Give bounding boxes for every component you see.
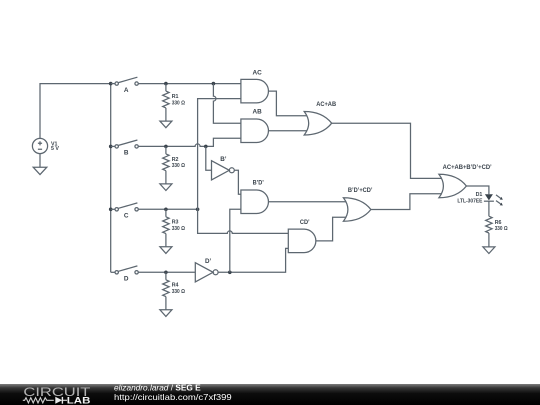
wire bus to switch B [111, 145, 115, 147]
wire C to AND U4 (hop over D' wire) [198, 209, 289, 233]
and-gate U2 (AB) [241, 108, 269, 142]
svg-text:330 Ω: 330 Ω [172, 289, 186, 295]
svg-text:B’D’: B’D’ [253, 179, 264, 186]
svg-text:elizandro.larad / SEG E: elizandro.larad / SEG E [114, 382, 201, 392]
wire B'D' output to OR U8 [269, 201, 347, 203]
wire B to inverter U3 [206, 146, 212, 170]
wire AB output to OR U7 [269, 130, 308, 132]
and-gate U4 (CD') [288, 219, 316, 253]
resistor R1 330 [163, 84, 186, 122]
svg-text:R3: R3 [172, 220, 179, 226]
and-gate U1 (AC) [241, 70, 269, 103]
wire bus to switch D [111, 271, 115, 273]
ground below R2 [160, 184, 172, 191]
svg-text:LTL-307EE: LTL-307EE [457, 198, 482, 204]
svg-text:B’D’+CD’: B’D’+CD’ [348, 187, 373, 194]
node bus-A [109, 82, 113, 86]
wire A to AND U2 (hop over C wire) [213, 84, 241, 124]
node A-resistor junction [164, 82, 168, 86]
svg-text:D’: D’ [205, 258, 211, 265]
wire B' output to AND U5 [234, 170, 241, 194]
resistor R3 330 [163, 209, 186, 247]
svg-text:330 Ω: 330 Ω [495, 226, 509, 232]
wire C up to AND U1 [198, 99, 241, 210]
node B-resistor junction [164, 145, 168, 149]
resistor R4 330 [163, 272, 186, 310]
or-gate U8 (B'D'+CD') [343, 187, 372, 221]
node D-resistor junction [164, 271, 168, 275]
svg-text:B’: B’ [220, 156, 226, 163]
svg-text:330 Ω: 330 Ω [172, 226, 186, 232]
resistor R2 330 [163, 146, 186, 184]
and-gate U5 (B'D') [241, 179, 269, 213]
ground below R6 [483, 247, 495, 254]
ground below R4 [160, 310, 172, 317]
ground below R1 [160, 121, 172, 128]
resistor R6 330 [486, 216, 509, 247]
CircuitLab logo [23, 385, 91, 405]
wire vertical bus [110, 84, 112, 273]
svg-text:CD’: CD’ [300, 219, 310, 226]
svg-text:AC: AC [253, 70, 262, 77]
ground below V1 [33, 154, 47, 175]
wire row C [138, 208, 197, 210]
switch SW_B (B) [115, 140, 138, 157]
wire OR U9 output to LED D1 [466, 186, 489, 194]
wire row D to inverter U6 [138, 271, 195, 273]
svg-text:5 V: 5 V [51, 146, 59, 152]
footer bar [0, 384, 540, 405]
wire AC output to OR U7 [269, 91, 308, 116]
wire bus to switch A [111, 83, 115, 85]
svg-text:A: A [124, 87, 129, 94]
or-gate U9 (AC+AB+B'D'+CD') [439, 164, 492, 198]
switch SW_C (C) [115, 203, 138, 220]
node bus-B [109, 145, 113, 149]
footer text [114, 382, 232, 402]
led D1 LTL-307EE [457, 192, 502, 205]
svg-text:330 Ω: 330 Ω [172, 100, 186, 106]
switch SW_A (A) [115, 77, 138, 94]
wire row B [138, 138, 241, 146]
wire OR U8 output to OR U9 [371, 194, 442, 210]
wire D' output [218, 248, 288, 272]
svg-text:AC+AB+B’D’+CD’: AC+AB+B’D’+CD’ [443, 164, 492, 171]
svg-text:AB: AB [253, 108, 262, 115]
inverter U3 (B') [212, 156, 235, 180]
svg-text:R2: R2 [172, 157, 179, 163]
wire LED to R6 [488, 201, 490, 216]
wire D' up to AND U5 [230, 209, 241, 272]
ground below R3 [160, 247, 172, 254]
svg-text:http://circuitlab.com/c7xf399: http://circuitlab.com/c7xf399 [114, 392, 232, 402]
node bus-C [109, 208, 113, 212]
svg-text:AC+AB: AC+AB [316, 101, 336, 108]
wire bus to switch C [111, 208, 115, 210]
svg-text:330 Ω: 330 Ω [172, 163, 186, 169]
node C-branch junction [196, 208, 200, 212]
switch SW_D (D) [115, 266, 138, 283]
wire row A to AND U1 [138, 83, 241, 85]
node B-inverter junction [204, 145, 208, 149]
svg-text:C: C [124, 213, 129, 220]
svg-text:R1: R1 [172, 94, 179, 100]
svg-text:R4: R4 [172, 283, 179, 289]
svg-text:D1: D1 [476, 192, 483, 198]
node D'-branch junction [228, 271, 232, 275]
wire CD' output to OR U8 [316, 217, 347, 241]
svg-text:B: B [124, 150, 129, 157]
node C-resistor junction [164, 208, 168, 212]
wire V1 to top rail [40, 84, 110, 139]
svg-text:D: D [124, 276, 129, 283]
inverter U6 (D') [195, 258, 218, 282]
svg-text:LAB: LAB [67, 395, 91, 405]
voltage source V1 5V [32, 138, 59, 153]
wire OR U7 output to OR U9 [332, 123, 442, 178]
or-gate U7 (AC+AB) [304, 101, 336, 135]
node A-branch junction [212, 82, 216, 86]
